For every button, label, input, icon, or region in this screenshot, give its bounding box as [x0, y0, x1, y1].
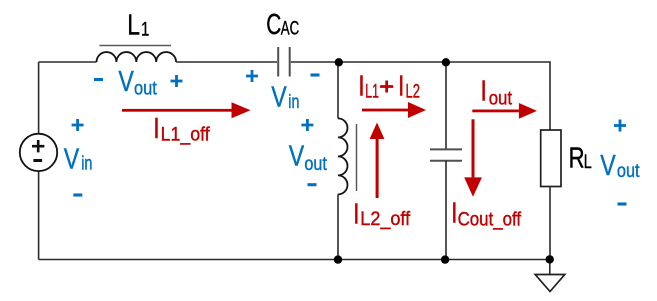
svg-text:I: I [353, 197, 359, 230]
current arrow IL1_off [122, 102, 251, 118]
svg-text:L1_off: L1_off [161, 123, 210, 145]
inductor L2 [338, 118, 357, 194]
wire top right [291, 62, 550, 130]
capacitor CAC [278, 47, 290, 77]
node bottom L2 [334, 255, 342, 263]
node top Cout [442, 58, 450, 66]
label Vin at CAC with polarity [246, 70, 320, 113]
ground [535, 260, 565, 292]
label ICout_off [451, 196, 521, 230]
svg-text:V: V [289, 139, 305, 172]
current arrow IL1+IL2 [362, 102, 426, 118]
current arrow IL2_off [370, 123, 385, 199]
label CAC [266, 9, 299, 41]
capacitor Cout [430, 149, 462, 160]
inductor L1 [97, 46, 177, 63]
label RL [569, 143, 592, 175]
node bottom ground [546, 255, 554, 263]
label Vout right with polarity [600, 120, 640, 205]
label Vin left with polarity [64, 119, 93, 195]
svg-text:1: 1 [141, 19, 149, 40]
svg-text:L: L [127, 8, 140, 41]
label L1 [127, 8, 149, 41]
wire top middle [176, 61, 277, 63]
wire bottom [39, 259, 550, 261]
wire right bottom [549, 187, 551, 260]
current arrow ICout_off [464, 119, 482, 196]
wire Cout branch bottom [445, 161, 447, 260]
label IL1_off [153, 111, 210, 144]
svg-text:I: I [480, 74, 486, 107]
svg-text:out: out [489, 87, 512, 109]
svg-text:I: I [398, 69, 404, 102]
svg-text:V: V [118, 64, 134, 97]
svg-text:out: out [304, 152, 327, 174]
svg-text:out: out [134, 77, 157, 99]
label IL2_off [353, 197, 410, 230]
wire top left [39, 61, 97, 63]
node top L2 [335, 58, 343, 66]
svg-text:I: I [358, 69, 364, 102]
svg-text:L: L [584, 151, 592, 172]
svg-text:C: C [266, 9, 281, 41]
svg-text:Cout_off: Cout_off [458, 208, 522, 230]
label Vout at L2 with polarity [289, 119, 327, 185]
svg-text:V: V [64, 142, 80, 175]
svg-text:V: V [600, 148, 616, 181]
svg-text:V: V [271, 80, 287, 113]
svg-text:AC: AC [281, 18, 299, 39]
wire L2 branch bottom [337, 194, 339, 259]
label IL1+IL2 [358, 69, 420, 102]
svg-text:R: R [569, 143, 585, 175]
svg-text:L1: L1 [365, 80, 379, 102]
label Vout under L1 with polarity [94, 64, 183, 99]
wire left bottom [38, 171, 40, 260]
svg-text:I: I [451, 196, 457, 229]
svg-text:L2: L2 [406, 80, 420, 102]
voltage source Vin [20, 134, 57, 171]
wire left top [38, 62, 40, 134]
wire Cout branch top [445, 62, 447, 149]
svg-text:in: in [288, 90, 299, 112]
current arrow Iout [472, 103, 537, 119]
svg-text:I: I [153, 111, 159, 144]
label Iout [480, 74, 512, 109]
svg-text:out: out [617, 159, 640, 181]
resistor RL [541, 130, 561, 187]
svg-text:L2_off: L2_off [360, 207, 410, 229]
svg-text:in: in [81, 152, 92, 174]
wire L2 branch top [337, 62, 339, 118]
node bottom Cout [441, 255, 449, 263]
